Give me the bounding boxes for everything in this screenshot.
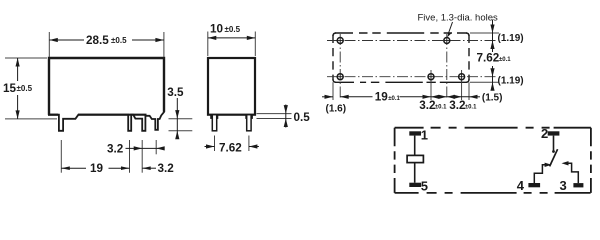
svg-text:±0.5: ±0.5 [17, 84, 33, 93]
svg-text:3.2: 3.2 [419, 99, 436, 112]
side view relay body [208, 58, 255, 115]
svg-text:±0.1: ±0.1 [435, 105, 447, 111]
right side ext lines [470, 32, 499, 34]
svg-text:3.2: 3.2 [158, 162, 175, 175]
svg-text:28.5: 28.5 [86, 34, 109, 47]
leader line [448, 22, 452, 34]
svg-text:4: 4 [517, 178, 525, 193]
side view right pin [247, 115, 251, 131]
centerline top row [327, 40, 497, 42]
centerline mid column [446, 34, 448, 100]
right edge extension [468, 82, 470, 100]
side view left pedestal [210, 115, 218, 119]
hole pattern dashed outline top edge [335, 32, 467, 34]
dim (1.5) [469, 96, 480, 98]
svg-text:(1.19): (1.19) [498, 76, 524, 87]
armature [550, 149, 558, 166]
svg-text:(1.6): (1.6) [326, 104, 347, 115]
svg-text:15: 15 [3, 82, 17, 95]
dim 0.5 ext lines [257, 113, 292, 115]
svg-text:3.5: 3.5 [167, 86, 184, 99]
dim (1.19) bottom [490, 82, 494, 91]
svg-text:10: 10 [210, 23, 224, 36]
coil [407, 155, 423, 162]
svg-text:5: 5 [421, 179, 428, 194]
hole top-mid [444, 38, 450, 44]
front bottom edge left segment [48, 114, 58, 116]
svg-text:±0.1: ±0.1 [465, 105, 477, 111]
schematic dashed border top [395, 127, 591, 129]
dim 7.62±0.1 right [492, 66, 494, 90]
terminal 5 [409, 183, 421, 187]
svg-text:7.62: 7.62 [219, 142, 242, 155]
dim 3.2±0.1 first [431, 96, 447, 98]
hole top-left [337, 38, 343, 44]
dim 3.2 lower (pins B-C) [142, 167, 156, 169]
dim 3.2±0.1 second [447, 96, 469, 98]
svg-text:(1.19): (1.19) [498, 33, 524, 44]
wire 2 to pivot [553, 136, 555, 152]
side view right pedestal [245, 115, 253, 119]
dim 3.2 upper line [126, 147, 165, 149]
dim 7.62 line [205, 146, 215, 148]
hole bottom-right [459, 74, 465, 80]
svg-text:2: 2 [541, 126, 548, 141]
hole pattern corners [333, 33, 336, 36]
hole pattern left edge [332, 35, 334, 80]
svg-text:±0.1: ±0.1 [499, 57, 511, 63]
svg-text:19: 19 [90, 162, 104, 175]
svg-text:1: 1 [421, 127, 428, 142]
hole bottom-left [337, 74, 343, 80]
hole pattern bottom edge [335, 81, 467, 83]
dim 15 line [17, 58, 19, 81]
left edge extension [332, 82, 334, 100]
schematic dashed border right [590, 128, 592, 193]
dim (1.6) [322, 96, 333, 98]
wire 1 to coil [414, 136, 416, 156]
svg-text:±0.1: ±0.1 [388, 96, 400, 102]
side view left pin [212, 115, 216, 131]
svg-text:(1.5): (1.5) [482, 93, 503, 104]
dim 28.5 ext lines [48, 32, 50, 57]
wire coil to 5 [414, 163, 416, 183]
hole pattern right edge [468, 35, 470, 80]
wire 4 contact arrow [534, 165, 545, 183]
dim 19±0.1 [340, 96, 372, 98]
svg-text:±0.5: ±0.5 [111, 36, 127, 45]
svg-text:7.62: 7.62 [477, 52, 500, 65]
dim (1.19) top [492, 20, 494, 52]
centerline bottom row [327, 76, 497, 78]
front bottom edge main segment [78, 114, 147, 116]
terminal 3 [573, 183, 583, 187]
dim 3.5 ext lines [169, 118, 193, 120]
dim 3.2 upper (pins C-D) ext lines [60, 140, 62, 173]
svg-text:3.2: 3.2 [107, 143, 124, 156]
dim 10 line [208, 37, 256, 39]
centerline bottom-right column [461, 70, 463, 100]
svg-text:0.5: 0.5 [294, 111, 311, 124]
schematic dashed border left [394, 128, 396, 193]
svg-text:19: 19 [375, 91, 389, 104]
dim 0.5 line and arrows [285, 105, 287, 128]
terminal 4 [528, 183, 540, 187]
schematic dashed border bottom [395, 192, 591, 194]
hole bottom-mid [428, 74, 434, 80]
front body thick outline overdraw [49, 58, 164, 115]
centerline left column [339, 34, 341, 100]
dim 10 ext lines [207, 32, 209, 57]
front view relay body with pins [49, 58, 164, 131]
svg-text:±0.5: ±0.5 [225, 25, 241, 34]
dim 19 line [61, 167, 86, 169]
dim 28.5 line [49, 39, 84, 41]
terminal 1 [409, 131, 421, 135]
svg-text:Five, 1.3-dia. holes: Five, 1.3-dia. holes [418, 13, 499, 24]
wire 3 contact arrow [568, 163, 579, 183]
dim 3.5 line and arrows [176, 98, 178, 139]
svg-text:3: 3 [560, 178, 567, 193]
dim 15 ext lines [5, 57, 47, 59]
dim 7.62 ext lines [214, 136, 216, 152]
terminal 2 [548, 131, 560, 135]
svg-text:3.2: 3.2 [449, 99, 466, 112]
centerline bottom-mid column [430, 70, 432, 100]
